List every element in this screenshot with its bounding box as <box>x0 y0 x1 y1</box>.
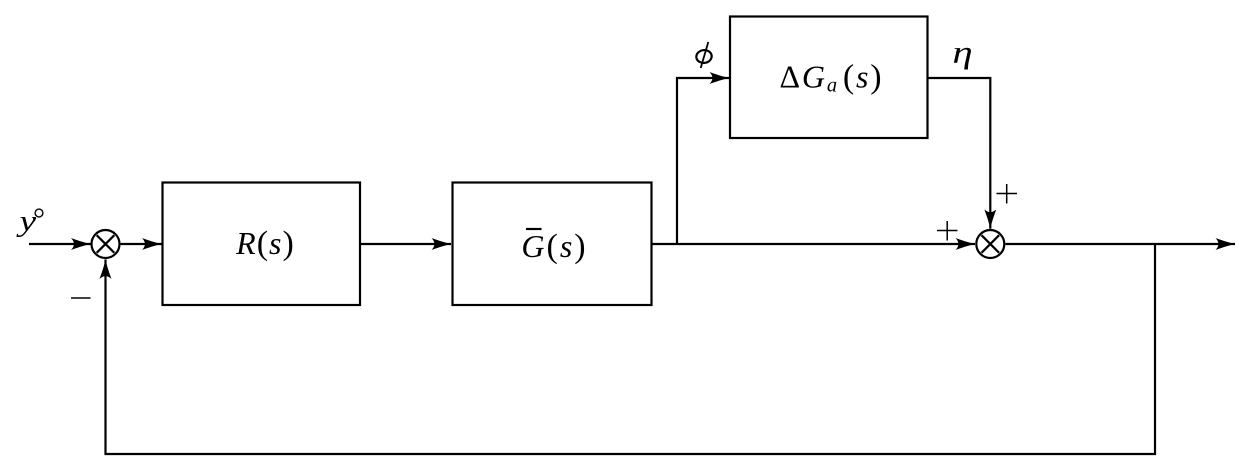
svg-text:y: y <box>16 205 37 238</box>
svg-text:R(s): R(s) <box>235 225 295 262</box>
svg-text:η: η <box>952 34 972 70</box>
svg-text:ΔGa(s): ΔGa(s) <box>780 59 884 97</box>
svg-text:G(s): G(s) <box>521 228 587 265</box>
